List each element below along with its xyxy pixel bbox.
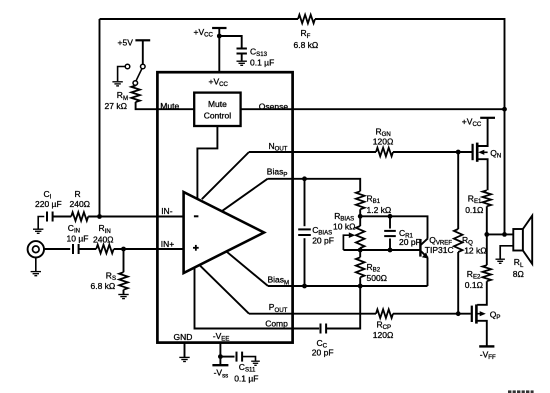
wire: Mute Control box to Osense pin (241, 108, 293, 110)
wire: -VEE pin down to supply (219, 344, 221, 365)
node: -VEE / CS11 junction (218, 354, 223, 359)
wire: CS13 to ground (241, 54, 243, 61)
wire: spare contact to ground stub (118, 67, 126, 82)
switch S1 pole contact (133, 81, 138, 86)
capacitor CC (321, 324, 327, 334)
resistor RIN (96, 245, 114, 254)
resistor RQ (454, 229, 463, 252)
transistor QVREF base bar (419, 239, 421, 257)
wire: jack to CIN (44, 248, 70, 250)
wire: top feedback rail left segment to RF (100, 18, 299, 20)
ground (RS) (118, 295, 128, 299)
svg-text:1.2 kΩ: 1.2 kΩ (367, 205, 392, 215)
transistor QP source lead (476, 321, 486, 346)
wire: Osense pin to right feedback vertical (293, 108, 505, 110)
svg-text:120Ω: 120Ω (373, 137, 394, 147)
wire: CBIAS bottom lead (304, 238, 306, 286)
wire: RBIAS pot to middle rail (359, 248, 361, 250)
svg-text:0.1 µF: 0.1 µF (250, 57, 274, 67)
node: QN gate / RQ junction (456, 150, 461, 155)
ground (RCA jack) (31, 272, 41, 276)
capacitor CIN (73, 244, 79, 254)
transistor QN channel bar (476, 143, 479, 162)
ground (GND pin) (179, 357, 189, 361)
svg-text:GND: GND (174, 332, 193, 342)
svg-text:+5V: +5V (118, 37, 134, 47)
svg-text:120Ω: 120Ω (373, 330, 394, 340)
wire: op-amp to BiasM diagonal (227, 252, 268, 286)
transistor QN gate bar (472, 144, 474, 160)
ground (CS13) (237, 61, 247, 65)
wire: middle rail to RB2 (359, 250, 361, 257)
wire: RCP to QP gate (393, 313, 471, 315)
wire: RE1 to output node (486, 206, 488, 234)
capacitor CR1 (384, 231, 396, 236)
svg-text:R: R (75, 189, 81, 199)
transistor QVREF emitter lead (421, 251, 428, 257)
capacitor CS13 (237, 49, 247, 54)
svg-text:10 kΩ: 10 kΩ (333, 221, 355, 231)
capacitor CBIAS (298, 229, 311, 235)
wire: CS11 to ground (242, 357, 255, 361)
svg-text:Control: Control (204, 111, 232, 121)
node: CBIAS / BiasM junction (302, 284, 307, 289)
resistor RF (298, 15, 315, 24)
IC box outline (157, 72, 292, 342)
wire: RGN to QN gate (393, 151, 472, 153)
node: +VCC / CS13 junction (217, 34, 222, 39)
svg-text:Comp: Comp (265, 318, 288, 328)
svg-text:240Ω: 240Ω (70, 199, 91, 209)
wire: jack to ground (35, 258, 37, 272)
block Mute Control box (194, 93, 240, 126)
node: QP gate / RQ junction (456, 311, 461, 316)
node: Osense feedback tap on output (502, 232, 507, 237)
wire: CI left lead and ground drop (38, 217, 44, 230)
node: RBIAS / RB2 junction (358, 248, 363, 253)
wire: CR1 top lead (389, 216, 391, 228)
svg-text:6.8 kΩ: 6.8 kΩ (294, 40, 319, 50)
wire: bias middle rail to QVREF base (343, 249, 419, 251)
power -VFF supply bar (479, 345, 494, 347)
power -Vss supply bar (212, 364, 228, 366)
svg-text:TIP31C: TIP31C (425, 245, 454, 255)
op-amp U1 triangle (184, 192, 264, 273)
wire: RS to ground (123, 290, 125, 295)
wire: op-amp to NOUT diagonal (202, 152, 249, 199)
wire: RE2 top lead (486, 234, 488, 265)
bottom-right partial text mark (508, 390, 534, 393)
svg-text:10 µF: 10 µF (67, 233, 89, 243)
wire: junction to CS11 (220, 356, 234, 358)
node: RE1 / RE2 output junction (484, 232, 489, 237)
wire: op-amp to Comp pin drop (195, 267, 320, 328)
node: Osense junction on right vertical (502, 107, 507, 112)
transistor QVREF collector lead (421, 238, 428, 245)
transistor QP body arrow (476, 313, 480, 315)
power +VCC supply bar (QN) (480, 117, 495, 119)
svg-text:12 kΩ: 12 kΩ (464, 245, 486, 255)
wire: speaker return to ground (500, 246, 513, 259)
capacitor CS11 (237, 352, 243, 362)
ground (mute switch) (112, 82, 122, 86)
connector J1 RCA jack outer (28, 241, 44, 257)
node: RB2 / CC junction on BiasM (358, 284, 363, 289)
wire: RQ top lead (457, 152, 459, 229)
wire: RM to Mute pin (136, 102, 158, 109)
resistor R (240 ohm, IN- input) (71, 212, 88, 221)
resistor RB1 (356, 191, 365, 209)
svg-text:8Ω: 8Ω (513, 269, 524, 279)
wire: BiasP pin to RB1 corner (268, 179, 361, 192)
wire: RB2 to BiasM rail (359, 277, 361, 286)
svg-text:Mute: Mute (208, 99, 227, 109)
wire: output node to speaker (487, 233, 514, 235)
svg-text:240Ω: 240Ω (93, 234, 114, 244)
svg-text:220 µF: 220 µF (35, 199, 62, 209)
svg-text:20 pF: 20 pF (399, 237, 421, 247)
wire: +VCC bar down into IC box top (218, 28, 220, 72)
wire: CIN to RIN (79, 248, 97, 250)
wire: junction to CS13 (219, 36, 241, 48)
node: RB1 / RBIAS junction (358, 214, 363, 219)
wire: R to IN- pin (88, 216, 183, 218)
svg-text:0.1Ω: 0.1Ω (465, 280, 483, 290)
wire: NOUT pin to RGN (249, 151, 376, 153)
svg-text:20 pF: 20 pF (312, 235, 334, 245)
wire: GND pin to ground (184, 344, 186, 358)
power +VCC supply bar (top) (212, 27, 226, 29)
wire: BiasM rail (268, 285, 428, 287)
potentiometer RBIAS body (356, 226, 365, 248)
wire: bias top rail to QVREF collector (360, 216, 427, 238)
power +5V supply bar (135, 39, 150, 41)
wire: QVREF emitter down to BiasM rail (427, 257, 429, 286)
transistor QP channel bar (475, 304, 478, 323)
resistor RE2 (483, 265, 492, 281)
resistor RB2 (356, 257, 365, 277)
op-amp inverting input marker - (194, 215, 199, 217)
wire: op-amp to POUT diagonal (200, 265, 249, 314)
wire: op-amp to BiasP diagonal (222, 179, 268, 211)
transistor QN body arrow (483, 151, 488, 153)
resistor RCP (376, 309, 393, 318)
wire: CC to BiasM rail riser (326, 286, 360, 329)
wire: left feedback vertical from IN- node up to top rail (99, 19, 101, 217)
node: CR1 bottom junction (388, 248, 393, 253)
node: IN- / feedback junction (97, 214, 102, 219)
resistor RM (131, 86, 140, 103)
wire: junction down to RS (123, 249, 125, 272)
ground (speaker) (496, 259, 505, 263)
wire: switch pole to RM (135, 84, 137, 87)
switch S1 lever (136, 69, 142, 81)
ground (CS11) (251, 361, 260, 365)
ground (CI) (33, 229, 43, 233)
connector J1 RCA jack inner (33, 246, 40, 253)
op-amp non-inverting input marker + (193, 245, 199, 251)
svg-text:20 pF: 20 pF (312, 347, 334, 357)
wire: top feedback rail right segment from RF to right corner (315, 19, 505, 109)
wire: Mute Control output down-left to op-amp (197, 126, 217, 198)
svg-text:0.1Ω: 0.1Ω (465, 205, 483, 215)
wire: POUT pin to RCP (249, 313, 376, 315)
svg-text:27 kΩ: 27 kΩ (105, 101, 127, 111)
svg-text:0.1 µF: 0.1 µF (234, 374, 258, 384)
capacitor CI (47, 212, 53, 222)
switch S1 throw contact (to +5V) (141, 64, 146, 69)
wire: RIN to IN+ pin (114, 248, 184, 250)
wire: CBIAS top lead (304, 179, 306, 226)
potentiometer RBIAS wiper arrow (343, 235, 349, 250)
speaker RL body (513, 229, 523, 251)
wire: top rail to RBIAS pot (359, 216, 361, 226)
node: BiasP / CBIAS junction (302, 176, 307, 181)
wire: CR1 bottom lead (389, 239, 391, 251)
wire: RQ bottom lead (457, 252, 459, 314)
transistor QN source lead (477, 159, 487, 190)
resistor RE1 (483, 190, 492, 206)
resistor RS (119, 272, 128, 290)
wire: right feedback vertical from Osense node down to output node (504, 109, 506, 234)
svg-text:6.8 kΩ: 6.8 kΩ (91, 281, 116, 291)
wire: RE2 to QP drain (477, 281, 487, 305)
wire: CI to R (53, 216, 72, 218)
resistor RGN (376, 148, 393, 157)
switch S1 spare contact (to ground) (125, 64, 130, 69)
wire: RB1 to bias top rail (359, 209, 361, 216)
transistor QP gate bar (471, 306, 473, 322)
wire: +VCC bar to QN drain (477, 118, 487, 146)
wire: +5V bar to switch throw (142, 40, 144, 64)
node: CR1 top junction (388, 214, 393, 219)
svg-text:500Ω: 500Ω (367, 273, 388, 283)
svg-text:IN-: IN- (161, 206, 173, 216)
svg-text:IN+: IN+ (161, 239, 175, 249)
node: IN+ / RS junction (121, 247, 126, 252)
wire: Mute pin to Mute Control box (158, 108, 195, 110)
